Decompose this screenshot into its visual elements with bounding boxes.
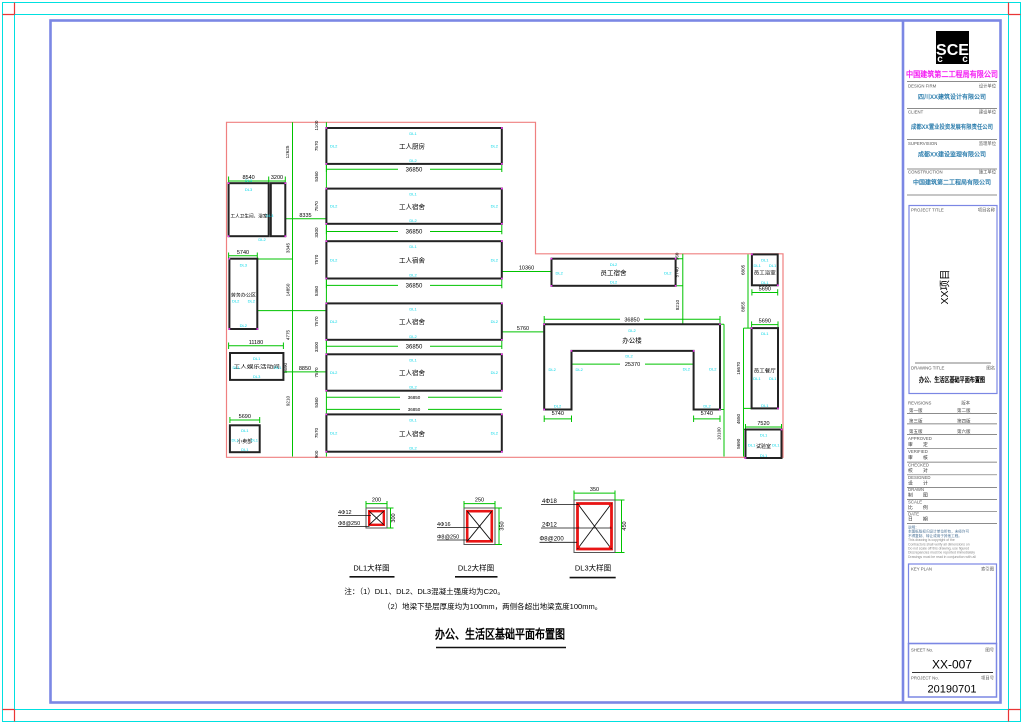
svg-text:DL3: DL3 — [245, 178, 253, 183]
dimension chain x=292.5 — [257, 122, 326, 456]
svg-text:DL1: DL1 — [760, 453, 768, 458]
svg-text:第五版: 第五版 — [909, 428, 923, 435]
svg-text:DRAWN: DRAWN — [908, 487, 924, 492]
svg-text:DL1: DL1 — [409, 192, 417, 197]
dim 5760 connector — [502, 331, 544, 333]
dim 8335 connector — [285, 218, 326, 220]
svg-text:DL2: DL2 — [330, 431, 338, 436]
dim 8850 connector — [283, 371, 326, 373]
svg-text:DL1: DL1 — [241, 447, 249, 452]
DL2 dim 250 — [464, 501, 495, 508]
svg-text:办公、生活区基础平面布置图: 办公、生活区基础平面布置图 — [435, 627, 565, 642]
svg-text:DL1大样图: DL1大样图 — [353, 563, 389, 573]
dim 36850 above office — [544, 316, 720, 324]
svg-text:16670: 16670 — [736, 361, 741, 374]
svg-text:REVISIONS: REVISIONS — [908, 401, 932, 406]
svg-text:DL1: DL1 — [761, 258, 769, 263]
svg-text:25370: 25370 — [625, 362, 640, 368]
building office U-shape — [544, 324, 720, 409]
svg-text:（2）地梁下垫层厚度均为100mm，两侧各超出地梁宽度100: （2）地梁下垫层厚度均为100mm，两侧各超出地梁宽度100mm。 — [383, 601, 602, 611]
svg-text:DL2: DL2 — [491, 370, 499, 375]
svg-text:DL2: DL2 — [409, 158, 417, 163]
svg-text:办公楼: 办公楼 — [622, 336, 642, 345]
svg-text:300: 300 — [391, 513, 397, 522]
svg-text:工人宿舍: 工人宿舍 — [399, 256, 426, 265]
svg-text:7570: 7570 — [314, 427, 319, 438]
dim 8540 3200 above WC — [229, 177, 286, 184]
svg-text:DL1: DL1 — [253, 356, 261, 361]
svg-text:DL1: DL1 — [233, 365, 241, 370]
svg-text:7570: 7570 — [314, 316, 319, 327]
svg-text:四川XX建筑设计有限公司: 四川XX建筑设计有限公司 — [918, 93, 986, 101]
svg-text:DL1: DL1 — [274, 365, 282, 370]
building worker WC/bath A — [229, 183, 269, 236]
svg-text:版本: 版本 — [961, 400, 970, 407]
svg-text:DL2: DL2 — [330, 319, 338, 324]
drawing title row — [915, 362, 991, 364]
DL3 dim 350 — [574, 491, 615, 501]
DL labels staff bath — [754, 258, 777, 285]
DL labels labour office — [232, 263, 256, 329]
svg-text:5740: 5740 — [701, 411, 713, 417]
svg-text:DL2: DL2 — [232, 299, 240, 304]
svg-text:XX-007: XX-007 — [932, 658, 972, 672]
svg-text:9210: 9210 — [286, 395, 291, 406]
svg-text:DL2: DL2 — [330, 204, 338, 209]
svg-text:DL3大样图: DL3大样图 — [575, 563, 611, 573]
revision rows — [909, 407, 971, 435]
svg-text:索引图: 索引图 — [981, 566, 994, 573]
svg-text:CHECKED: CHECKED — [908, 462, 929, 467]
DL labels staff dorm — [556, 262, 673, 285]
svg-text:DL2: DL2 — [409, 385, 417, 390]
dim 10360 connector — [502, 271, 552, 273]
svg-text:36850: 36850 — [408, 407, 421, 412]
svg-text:DL1: DL1 — [761, 331, 769, 336]
svg-text:VERIFIED: VERIFIED — [908, 449, 928, 454]
svg-text:8335: 8335 — [299, 213, 311, 219]
svg-text:DL3: DL3 — [245, 187, 253, 192]
svg-text:DL2: DL2 — [491, 431, 499, 436]
svg-text:DL1: DL1 — [409, 357, 417, 362]
svg-text:14850: 14850 — [286, 283, 291, 296]
svg-text:6805: 6805 — [741, 264, 746, 275]
svg-text:设: 设 — [908, 480, 913, 487]
DL labels WC building — [245, 178, 274, 242]
svg-text:DL3: DL3 — [266, 213, 274, 218]
svg-text:5690: 5690 — [759, 319, 771, 325]
svg-text:3300: 3300 — [314, 341, 319, 352]
dim 16670 — [743, 328, 745, 456]
svg-text:期: 期 — [923, 517, 928, 523]
signature rows — [908, 436, 932, 517]
svg-text:审: 审 — [908, 454, 913, 461]
svg-text:第一版: 第一版 — [909, 407, 923, 414]
svg-text:办公、生活区基础平面布置图: 办公、生活区基础平面布置图 — [919, 375, 985, 384]
svg-text:450: 450 — [622, 521, 628, 530]
svg-text:DL1: DL1 — [769, 376, 777, 381]
DL labels recreation — [233, 356, 283, 379]
dim 7520 above lab — [746, 424, 782, 430]
svg-text:DL2: DL2 — [576, 367, 584, 372]
svg-text:5360: 5360 — [314, 397, 319, 408]
svg-text:制: 制 — [908, 492, 913, 499]
svg-text:图: 图 — [923, 493, 928, 499]
svg-text:PROJECT TITLE: PROJECT TITLE — [911, 208, 944, 213]
svg-text:DL2: DL2 — [628, 328, 636, 333]
svg-text:5760: 5760 — [517, 326, 529, 332]
svg-text:DL1: DL1 — [761, 280, 769, 285]
dim 5740 right leg — [694, 416, 720, 423]
dim 10100 — [723, 410, 725, 457]
svg-text:5690: 5690 — [759, 287, 771, 293]
svg-text:200: 200 — [372, 498, 381, 504]
svg-text:c: c — [937, 54, 943, 65]
svg-text:7570: 7570 — [314, 254, 319, 265]
svg-text:工人厨房: 工人厨房 — [399, 142, 425, 151]
blue title block divider — [902, 21, 905, 703]
svg-text:5690: 5690 — [736, 438, 741, 449]
svg-text:SHEET No.: SHEET No. — [911, 648, 933, 653]
red corner mark bottom-left — [3, 710, 15, 722]
svg-text:DL2: DL2 — [709, 367, 717, 372]
connector ticks — [676, 259, 752, 430]
svg-text:监理单位: 监理单位 — [979, 140, 997, 147]
svg-text:3345: 3345 — [286, 242, 291, 253]
svg-text:DL1: DL1 — [748, 443, 756, 448]
svg-text:DL2: DL2 — [554, 404, 562, 409]
svg-text:核: 核 — [923, 454, 928, 461]
svg-text:36850: 36850 — [408, 395, 421, 400]
svg-text:设计单位: 设计单位 — [979, 83, 997, 90]
svg-text:定: 定 — [923, 441, 928, 448]
svg-text:DRAWING TITLE: DRAWING TITLE — [911, 366, 945, 371]
svg-text:36850: 36850 — [624, 317, 639, 323]
svg-text:12625: 12625 — [285, 145, 290, 158]
svg-text:审: 审 — [908, 441, 913, 448]
dim 6805 — [747, 254, 749, 328]
svg-text:DL3: DL3 — [253, 374, 261, 379]
svg-text:5740: 5740 — [237, 250, 249, 256]
svg-text:试验室: 试验室 — [756, 443, 771, 450]
dim 5690 below bath — [752, 289, 778, 295]
magenta node markers — [228, 127, 783, 459]
building staff bath — [752, 254, 778, 285]
right vertical dim chain x=682.8 — [682, 254, 684, 324]
building B3 worker dorm — [326, 241, 501, 278]
svg-text:DL2: DL2 — [491, 319, 499, 324]
DL2 dim 350 — [495, 508, 502, 545]
building B4 worker dorm — [326, 303, 501, 339]
svg-text:DATE: DATE — [908, 512, 919, 517]
svg-text:SCALE: SCALE — [908, 500, 922, 505]
svg-text:DL2: DL2 — [491, 257, 499, 262]
svg-text:DL1: DL1 — [753, 376, 761, 381]
svg-text:DL2: DL2 — [248, 299, 256, 304]
svg-text:4775: 4775 — [286, 329, 291, 340]
svg-text:DL1: DL1 — [409, 244, 417, 249]
svg-text:计: 计 — [923, 480, 928, 487]
svg-text:CONSTRUCTION: CONSTRUCTION — [908, 170, 943, 175]
svg-text:DL2: DL2 — [549, 367, 557, 372]
svg-text:工人宿舍: 工人宿舍 — [399, 368, 426, 377]
svg-text:10100: 10100 — [717, 427, 722, 440]
svg-text:DESIGNED: DESIGNED — [908, 475, 930, 480]
DL1 dim 300 — [387, 508, 394, 528]
svg-text:DL1: DL1 — [761, 403, 769, 408]
dim 5740 above LB — [229, 253, 258, 259]
svg-text:日: 日 — [908, 517, 913, 523]
dim 17630 right of office — [723, 324, 725, 409]
svg-text:350: 350 — [499, 521, 505, 530]
svg-text:APPROVED: APPROVED — [908, 436, 932, 441]
svg-text:8210: 8210 — [675, 299, 680, 310]
svg-text:KEY PLAN: KEY PLAN — [911, 567, 932, 572]
svg-text:员工宿舍: 员工宿舍 — [601, 268, 628, 277]
svg-text:CLIENT: CLIENT — [908, 110, 924, 115]
svg-text:1100: 1100 — [314, 120, 319, 130]
svg-text:DL2: DL2 — [409, 218, 417, 223]
svg-text:XX项目: XX项目 — [939, 269, 951, 304]
svg-text:中国建筑第二工程局有限公司: 中国建筑第二工程局有限公司 — [913, 179, 991, 187]
svg-text:DL2: DL2 — [409, 334, 417, 339]
svg-text:工人宿舍: 工人宿舍 — [399, 317, 426, 326]
sheet number box — [909, 644, 997, 698]
svg-text:8855: 8855 — [741, 301, 746, 312]
svg-text:DL2: DL2 — [625, 354, 633, 359]
svg-text:DL2: DL2 — [683, 367, 691, 372]
DL1 dim 200 — [366, 501, 387, 508]
svg-text:成都XX置业投资发展有限责任公司: 成都XX置业投资发展有限责任公司 — [911, 123, 993, 131]
DL labels dorm rows — [330, 131, 499, 451]
svg-text:5360: 5360 — [314, 171, 319, 182]
svg-text:36850: 36850 — [406, 284, 423, 290]
svg-text:7520: 7520 — [757, 421, 769, 427]
svg-text:DESIGN FIRM: DESIGN FIRM — [908, 84, 937, 89]
svg-text:DL2: DL2 — [330, 143, 338, 148]
svg-text:成都XX建设监理有限公司: 成都XX建设监理有限公司 — [918, 151, 986, 159]
svg-text:DL2: DL2 — [409, 446, 417, 451]
key plan box — [909, 564, 997, 644]
dim 5690 above canteen — [752, 321, 778, 328]
svg-text:DL1: DL1 — [232, 438, 240, 443]
svg-text:第六版: 第六版 — [957, 428, 971, 435]
building B6 worker dorm — [326, 414, 501, 451]
svg-text:工人卫生间、浴室: 工人卫生间、浴室 — [231, 213, 268, 220]
svg-text:工人娱乐活动间: 工人娱乐活动间 — [234, 364, 280, 371]
svg-text:36850: 36850 — [406, 167, 423, 173]
svg-text:DL2: DL2 — [330, 370, 338, 375]
svg-text:对: 对 — [923, 467, 928, 474]
svg-text:DL1: DL1 — [760, 433, 768, 438]
svg-text:DL2: DL2 — [258, 237, 266, 242]
detail DL2 outer square — [464, 508, 495, 545]
svg-text:Φ8@200: Φ8@200 — [540, 537, 565, 543]
svg-text:注：（1）DL1、DL2、DL3混凝土强度均为C20。: 注：（1）DL1、DL2、DL3混凝土强度均为C20。 — [344, 586, 504, 596]
svg-text:DL2: DL2 — [556, 271, 564, 276]
svg-text:36850: 36850 — [406, 344, 423, 350]
dimension chain x=326.4 left of dorms — [325, 122, 327, 456]
svg-text:例: 例 — [923, 504, 928, 511]
dim 5740 left leg — [544, 416, 571, 423]
svg-text:DL2: DL2 — [610, 280, 618, 285]
under-building dim lines 36850 — [326, 164, 501, 410]
svg-text:第四版: 第四版 — [957, 418, 971, 425]
svg-text:DL1: DL1 — [409, 417, 417, 422]
svg-text:中国建筑第二工程局有限公司: 中国建筑第二工程局有限公司 — [906, 69, 998, 79]
svg-text:DL1: DL1 — [769, 263, 777, 268]
DL labels kiosk — [232, 428, 259, 452]
svg-text:劳务办公区: 劳务办公区 — [231, 292, 256, 299]
svg-text:11180: 11180 — [249, 340, 263, 346]
site boundary red — [227, 122, 784, 457]
svg-text:员工餐厅: 员工餐厅 — [754, 368, 776, 375]
svg-text:DL2: DL2 — [330, 257, 338, 262]
svg-text:项目名称: 项目名称 — [978, 207, 996, 214]
svg-text:350: 350 — [590, 487, 599, 493]
svg-text:第三版: 第三版 — [909, 418, 923, 425]
svg-text:DL2: DL2 — [240, 323, 248, 328]
svg-text:DL1: DL1 — [241, 428, 249, 433]
svg-text:SUPERVISION: SUPERVISION — [908, 141, 937, 146]
svg-text:DL2大样图: DL2大样图 — [458, 563, 494, 573]
building kiosk — [230, 425, 260, 452]
building B5 worker dorm — [326, 354, 501, 390]
svg-text:工人宿舍: 工人宿舍 — [399, 202, 426, 211]
svg-text:DL1: DL1 — [772, 443, 780, 448]
svg-text:工人宿舍: 工人宿舍 — [399, 429, 426, 438]
building B1 worker kitchen — [326, 128, 501, 164]
svg-text:员工浴室: 员工浴室 — [754, 270, 776, 277]
detail DL1 outer square — [366, 508, 387, 528]
svg-text:施工单位: 施工单位 — [979, 169, 997, 176]
red corner mark bottom-right — [1009, 710, 1021, 722]
svg-text:DL2: DL2 — [409, 273, 417, 278]
DL labels staff canteen — [753, 331, 777, 408]
svg-text:c: c — [962, 54, 968, 65]
svg-text:20190701: 20190701 — [928, 684, 977, 696]
svg-text:DL2: DL2 — [664, 271, 672, 276]
building labour office — [229, 259, 257, 329]
svg-text:DL2: DL2 — [491, 204, 499, 209]
svg-text:DL1: DL1 — [754, 263, 762, 268]
svg-text:3200: 3200 — [271, 175, 283, 181]
building staff canteen — [752, 328, 778, 408]
svg-text:7570: 7570 — [314, 201, 319, 212]
detail DL3 outer square — [574, 500, 615, 553]
building worker recreation — [230, 353, 283, 380]
svg-text:DL1: DL1 — [409, 131, 417, 136]
svg-text:PROJECT No.: PROJECT No. — [911, 676, 939, 681]
svg-text:900: 900 — [314, 450, 319, 458]
DL labels office — [549, 328, 718, 409]
building worker WC/bath B — [271, 183, 286, 236]
svg-text:DL1: DL1 — [409, 306, 417, 311]
svg-text:建设单位: 建设单位 — [979, 109, 997, 116]
svg-text:图名: 图名 — [986, 365, 995, 372]
DL3 dim 450 — [615, 500, 625, 553]
svg-text:7570: 7570 — [314, 140, 319, 151]
red corner mark top-right — [1009, 3, 1021, 15]
svg-text:8850: 8850 — [299, 366, 311, 372]
svg-text:DL2: DL2 — [610, 262, 618, 267]
svg-text:比: 比 — [908, 504, 913, 511]
svg-text:250: 250 — [475, 498, 484, 504]
CSCEC logo — [936, 31, 969, 65]
title block row dividers — [907, 82, 997, 196]
dim 25370 inside notch — [572, 363, 694, 365]
DL labels lab — [748, 433, 780, 458]
dim 11180 above REC — [229, 343, 284, 350]
building B2 worker dorm — [326, 189, 501, 224]
dim 5690 above XSB — [230, 417, 260, 423]
svg-text:3300: 3300 — [314, 227, 319, 238]
building lab — [746, 430, 782, 459]
svg-text:DL1: DL1 — [251, 438, 259, 443]
building staff dorm — [552, 259, 676, 286]
svg-text:DL2: DL2 — [703, 404, 711, 409]
svg-text:校: 校 — [908, 467, 913, 474]
svg-text:36850: 36850 — [406, 230, 423, 236]
svg-text:5360: 5360 — [314, 285, 319, 296]
svg-text:第二版: 第二版 — [957, 407, 971, 414]
project title box — [909, 206, 997, 394]
svg-text:5740: 5740 — [552, 411, 564, 417]
svg-text:5690: 5690 — [239, 414, 251, 420]
svg-text:4650: 4650 — [736, 413, 741, 424]
svg-text:DL2: DL2 — [491, 143, 499, 148]
svg-text:10360: 10360 — [519, 266, 534, 272]
red corner mark top-left — [3, 3, 15, 15]
notes block — [908, 525, 969, 538]
svg-text:Drawings must be read in conju: Drawings must be read in conjunction wit… — [908, 555, 976, 559]
svg-text:DL3: DL3 — [240, 263, 248, 268]
